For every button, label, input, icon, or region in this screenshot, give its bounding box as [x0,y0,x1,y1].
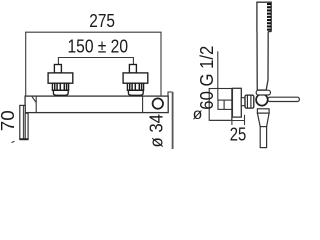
head grip ribs [267,3,271,31]
hand shower head [257,2,271,32]
right union nut [127,83,143,90]
dimension 25 line [210,120,244,122]
dimension 275 line [26,32,161,96]
label diameter 60 G 1/2 [197,46,217,110]
wall recess box [209,89,232,121]
wall plate bottom edge thick [20,138,28,140]
hose connection nipple [168,92,173,96]
diverter knob circle [153,98,163,108]
dimension 70 bottom tick [12,141,15,142]
body left collar divider [35,96,37,113]
svg-text:275: 275 [89,11,115,31]
right union flange [123,73,148,83]
hose tube [260,127,266,148]
left union nut [52,83,68,90]
end section divider [142,96,144,113]
ball joint circle [256,94,268,106]
holder nut [245,95,254,108]
left union pipe stub [54,65,61,74]
wall plate inner edge [22,106,24,140]
svg-text:ø 34: ø 34 [146,114,166,148]
svg-text:ø: ø [193,106,203,123]
svg-text:60 G 1/2: 60 G 1/2 [197,46,217,110]
svg-text:25: 25 [230,124,247,144]
wall plate side profile [20,105,25,139]
right union dome [128,90,143,95]
mixer body bar [25,96,168,113]
shower wall plate [232,88,241,117]
body left collar chamfer [32,97,36,103]
right union [123,65,148,96]
left union dome [53,90,68,95]
right union pipe stub [129,65,136,74]
dimension 150 ± 20 line [58,58,133,73]
G1/2 stub divider [223,100,225,109]
wall plate lower strip [25,113,28,139]
plate connection stub [241,98,245,106]
holder arm [268,97,299,101]
hand shower handle [257,32,268,91]
leader line for label [217,51,219,100]
dimension 25 right tick [244,115,246,125]
G1/2 stub in wall [218,100,232,109]
shower hose hanging [172,92,174,149]
dimension 70 text [0,110,18,131]
clamp ring [256,90,270,95]
svg-text:70: 70 [0,110,18,131]
svg-text:150 ± 20: 150 ± 20 [68,37,129,57]
head to handle step [268,31,271,33]
shower collar [257,109,269,113]
left union [48,65,73,96]
dimension 25 left tick [231,117,233,125]
label diameter 34 [146,114,166,148]
left union flange [48,73,73,83]
hose cone [257,113,269,127]
